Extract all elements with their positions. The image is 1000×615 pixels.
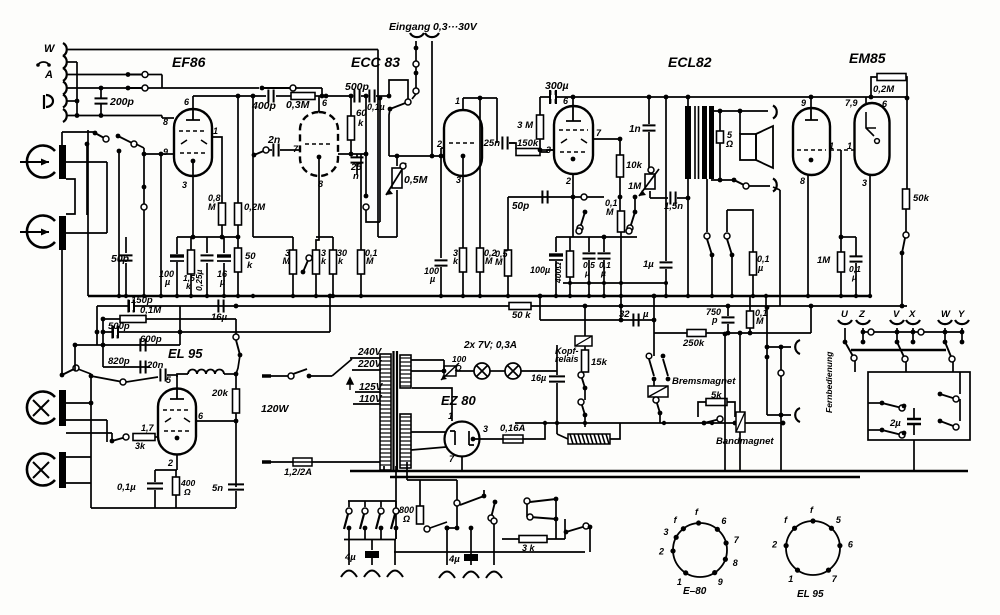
wire long line 1 <box>350 470 968 472</box>
wire <box>440 267 442 295</box>
wire <box>687 179 689 295</box>
wire <box>539 97 541 115</box>
svg-text:5k: 5k <box>711 390 722 401</box>
junction <box>191 235 196 240</box>
wire <box>360 154 362 250</box>
bus junction <box>359 294 363 298</box>
wire <box>547 538 565 540</box>
wire <box>555 237 557 252</box>
wire pin8 <box>807 175 809 296</box>
svg-text:50p: 50p <box>111 253 130 265</box>
wire <box>332 274 334 295</box>
wire <box>711 255 713 295</box>
wire <box>102 319 104 367</box>
svg-text:50 k: 50 k <box>512 310 531 321</box>
resistor 0,2M right <box>477 248 484 272</box>
wire <box>66 456 91 458</box>
wire anode stub <box>462 98 464 110</box>
wire grid9 <box>144 153 174 155</box>
wire <box>376 95 389 97</box>
bus junction <box>506 294 510 298</box>
wire <box>653 351 655 356</box>
switch <box>578 372 587 390</box>
bus junction <box>439 294 443 298</box>
svg-text:0,1µ: 0,1µ <box>367 102 385 112</box>
wire <box>711 179 733 181</box>
pinout diagram E-80 <box>673 523 727 577</box>
junction <box>568 281 572 285</box>
wire <box>176 375 178 389</box>
wire <box>862 328 864 342</box>
wire <box>493 524 495 565</box>
junction <box>85 142 90 147</box>
wire <box>604 236 637 238</box>
contact <box>424 526 430 532</box>
resistor 1M em85 <box>838 252 845 272</box>
wire <box>78 369 91 374</box>
wire <box>167 374 177 376</box>
wire <box>111 433 113 441</box>
wire <box>507 276 509 295</box>
wire <box>648 132 650 168</box>
wire <box>221 225 223 237</box>
resistor 5k <box>706 399 727 406</box>
junction <box>555 421 559 425</box>
svg-text:0,3M: 0,3M <box>286 99 310 111</box>
wire <box>569 237 571 251</box>
wire W row <box>67 49 378 51</box>
junction <box>142 152 147 157</box>
wire <box>154 490 156 508</box>
capacitor 1µ <box>660 262 673 267</box>
svg-text:µ: µ <box>642 309 649 320</box>
resistor 1,5k <box>188 250 195 274</box>
pin 1 <box>683 570 688 575</box>
wire 250k row <box>654 332 811 334</box>
svg-text:0,5M: 0,5M <box>404 174 428 186</box>
ground 5 <box>463 572 479 579</box>
svg-text:50p: 50p <box>512 201 529 212</box>
wire <box>350 140 352 154</box>
svg-text:200p: 200p <box>109 96 135 108</box>
wire <box>396 190 398 237</box>
wire <box>854 361 856 372</box>
switch <box>388 99 411 111</box>
wire <box>539 296 541 320</box>
wire head jog <box>66 179 75 214</box>
resistor 0,1M ecl <box>618 211 625 232</box>
wire <box>952 362 954 372</box>
wire <box>905 209 907 232</box>
wire <box>177 374 188 377</box>
power transformer secondary bottom <box>400 414 411 468</box>
bus junction <box>236 294 240 298</box>
contact bank1-1 <box>346 508 352 514</box>
switch arm <box>430 522 447 528</box>
junction <box>478 96 483 101</box>
head symbol 2 (circle with arrow) <box>20 216 55 248</box>
svg-text:W: W <box>44 43 56 55</box>
wire <box>752 214 754 252</box>
wire <box>706 179 708 232</box>
svg-text:Eingang: Eingang <box>389 21 431 33</box>
wire speaker drop <box>779 190 781 306</box>
svg-text:400Ω: 400Ω <box>553 262 563 284</box>
wire <box>752 275 754 295</box>
wire <box>235 319 237 334</box>
wire <box>731 255 733 295</box>
wire <box>280 149 300 151</box>
junction <box>349 152 354 157</box>
fuse 1,2/2A <box>293 458 312 466</box>
wire <box>321 88 323 96</box>
wire <box>589 527 591 552</box>
wire <box>483 490 485 496</box>
svg-text:2µ: 2µ <box>889 418 901 429</box>
junction <box>781 421 785 425</box>
jack remote 1 <box>795 340 800 354</box>
wire <box>620 232 622 295</box>
wire A row <box>67 74 128 76</box>
wire <box>739 333 741 412</box>
wire EZ80 plate <box>412 388 452 421</box>
junction <box>89 401 94 406</box>
capacitor 0,5µ <box>583 253 596 258</box>
svg-text:15k: 15k <box>591 357 608 368</box>
junction <box>664 281 668 285</box>
contact <box>491 518 497 524</box>
wire head2 top <box>66 232 107 234</box>
wire 600p row <box>75 344 180 346</box>
svg-text:EZ 80: EZ 80 <box>441 393 476 408</box>
tube EZ80 (circle) <box>445 422 480 457</box>
wire <box>440 148 442 156</box>
junction <box>809 95 814 100</box>
junction <box>324 94 329 99</box>
resistor 0,2M em85 <box>877 74 906 81</box>
junction <box>73 343 78 348</box>
junction <box>652 294 657 299</box>
head core bar 1 <box>59 145 66 179</box>
wire <box>780 376 782 471</box>
wire <box>496 98 498 143</box>
svg-text:250k: 250k <box>682 338 705 349</box>
wire pin6 <box>196 420 236 422</box>
capacitor 16µ <box>217 254 231 257</box>
ground 6 <box>486 572 502 579</box>
junction <box>445 526 450 531</box>
bus junction <box>602 294 606 298</box>
capacitor 2n <box>273 144 278 157</box>
switch <box>653 397 662 415</box>
head core bar 3 <box>59 390 66 426</box>
junction <box>869 95 874 100</box>
svg-text:7,9: 7,9 <box>845 98 858 108</box>
wire <box>431 41 433 156</box>
Bandmagnet box <box>736 412 745 432</box>
svg-text:A: A <box>44 69 53 81</box>
wire <box>118 151 120 295</box>
wire <box>269 149 272 151</box>
wire <box>572 174 574 197</box>
junction <box>538 148 543 153</box>
switch <box>727 239 734 257</box>
switch <box>578 399 587 417</box>
wire <box>315 274 317 295</box>
contact <box>288 373 294 379</box>
contact bank1-2 <box>362 508 368 514</box>
jack X <box>906 320 920 324</box>
junction <box>328 294 333 299</box>
switch <box>89 374 126 385</box>
mains lead top <box>262 374 271 378</box>
contact <box>400 163 406 169</box>
wire <box>412 94 416 99</box>
switch arm <box>93 131 109 142</box>
wire <box>440 156 442 258</box>
resistor 0,3M <box>291 93 315 100</box>
junction <box>652 318 657 323</box>
bus junction <box>664 294 668 298</box>
pin 1 <box>795 568 800 573</box>
wire <box>470 560 472 565</box>
wire <box>462 272 464 295</box>
ground 4 <box>439 572 455 579</box>
wire <box>773 187 780 190</box>
resistor 250k <box>687 330 706 337</box>
wire <box>610 423 620 439</box>
wire plate row <box>193 95 266 97</box>
svg-text:8: 8 <box>733 558 738 568</box>
wire <box>961 328 963 342</box>
contact bank1-3 <box>378 508 384 514</box>
wire <box>865 97 867 103</box>
wire <box>648 97 650 124</box>
switch mains arm <box>293 369 307 374</box>
capacitor 600p <box>140 339 145 352</box>
wire <box>395 466 397 539</box>
svg-text:10k: 10k <box>626 160 643 171</box>
wire <box>389 80 408 99</box>
relay Kopfrelais <box>575 336 592 346</box>
junction <box>101 317 106 322</box>
svg-text:240V: 240V <box>357 347 383 358</box>
svg-text:1: 1 <box>455 96 460 106</box>
tube ECC83 right half <box>444 110 482 176</box>
bus junction <box>124 294 128 298</box>
wire <box>959 372 961 394</box>
wire <box>653 379 655 386</box>
junction <box>902 404 907 409</box>
switch contact <box>260 85 296 91</box>
svg-text:µ: µ <box>164 277 170 287</box>
junction <box>895 330 900 335</box>
wire p row <box>67 100 77 102</box>
cathode dot <box>317 155 322 160</box>
svg-text:1,2/2A: 1,2/2A <box>284 467 312 478</box>
svg-text:20n: 20n <box>146 360 164 371</box>
junction <box>723 332 728 337</box>
switch arm <box>116 134 137 147</box>
wire <box>766 308 768 348</box>
wire <box>462 156 464 248</box>
wire <box>868 429 882 431</box>
head core bar 2 <box>59 216 66 250</box>
tube EF86 <box>174 109 212 176</box>
resistor 5Ω <box>717 131 724 143</box>
wire cathode <box>192 161 194 237</box>
junction <box>686 196 691 201</box>
junction <box>748 331 753 336</box>
wire plate7 <box>593 138 620 140</box>
junction <box>236 235 241 240</box>
junction <box>178 330 183 335</box>
wire <box>677 197 688 199</box>
resistor 3k bottom <box>519 536 547 543</box>
switch arm W <box>943 340 955 362</box>
switch box4 <box>938 419 959 430</box>
svg-text:µ: µ <box>584 268 590 278</box>
capacitor 0,1µ el95 <box>147 483 163 488</box>
wire <box>395 501 397 507</box>
svg-text:3: 3 <box>456 175 461 185</box>
wire <box>292 237 294 250</box>
wire <box>235 374 237 389</box>
wire <box>739 111 741 134</box>
jack speaker top <box>773 106 777 119</box>
capacitor 0,25µ <box>201 255 214 260</box>
wire <box>96 306 98 345</box>
junction <box>95 330 100 335</box>
svg-text:1: 1 <box>677 577 682 587</box>
wire <box>394 539 396 565</box>
capacitor 500p row <box>112 326 117 339</box>
svg-text:2: 2 <box>771 540 777 550</box>
mains lead bottom <box>262 460 271 464</box>
pin f <box>792 526 797 531</box>
wire <box>348 539 350 565</box>
svg-text:EL 95: EL 95 <box>797 589 824 600</box>
switch <box>627 210 637 231</box>
tube ECL82 <box>554 106 593 174</box>
junction <box>387 94 392 99</box>
jack W <box>938 320 952 324</box>
junction <box>619 304 624 309</box>
svg-text:µ: µ <box>429 274 435 284</box>
wire <box>190 274 192 295</box>
wire <box>555 261 557 295</box>
input jack 5 <box>63 95 67 108</box>
potentiometer 1M <box>639 169 659 196</box>
junction <box>686 95 691 100</box>
junction <box>414 46 419 51</box>
svg-text:400p: 400p <box>251 100 277 112</box>
wire <box>348 528 350 539</box>
wire <box>161 116 163 119</box>
wire left border <box>87 130 89 296</box>
switch <box>530 497 558 502</box>
bus junction <box>461 294 465 298</box>
capacitor 150p <box>128 300 133 313</box>
wire <box>584 423 586 427</box>
wire box drop <box>913 440 915 471</box>
wire <box>419 480 421 506</box>
wire head1 <box>66 161 107 163</box>
wire to speaker <box>713 110 768 112</box>
svg-text:V: V <box>893 309 900 320</box>
pilot lamp 2 <box>505 363 521 379</box>
wire <box>66 419 107 421</box>
wire <box>125 263 127 295</box>
svg-text:50k: 50k <box>913 193 930 204</box>
switch <box>60 365 79 377</box>
switch bank1-3 <box>376 514 380 529</box>
bus junction <box>331 294 335 298</box>
wire <box>66 402 91 404</box>
wire <box>479 98 481 248</box>
junction <box>781 421 786 426</box>
svg-text:2: 2 <box>565 176 571 186</box>
wire <box>126 377 158 382</box>
svg-text:U: U <box>841 309 849 320</box>
contact <box>527 514 533 520</box>
svg-text:1,5n: 1,5n <box>664 201 683 212</box>
junction <box>538 294 543 299</box>
svg-text:4µ: 4µ <box>344 552 356 563</box>
svg-text:2: 2 <box>167 458 173 468</box>
junction <box>718 178 723 183</box>
svg-text:600p: 600p <box>140 334 162 345</box>
wire <box>76 62 78 116</box>
input jack 1 <box>63 43 67 56</box>
erase head symbol 2 <box>27 454 55 486</box>
wire <box>356 154 358 157</box>
junction <box>543 421 547 425</box>
wire <box>521 370 557 372</box>
wire <box>766 347 768 415</box>
wire <box>749 296 751 311</box>
contact <box>454 500 460 506</box>
switch <box>110 434 129 443</box>
resistor 10k <box>617 155 624 177</box>
switch contact A <box>126 72 148 78</box>
wire <box>726 210 728 232</box>
wire <box>727 402 735 417</box>
wire <box>160 154 162 295</box>
jack U <box>838 320 852 324</box>
junction <box>75 99 80 104</box>
junction <box>101 343 106 348</box>
wire <box>557 434 568 439</box>
wire <box>868 402 882 404</box>
capacitor 400p <box>268 90 273 103</box>
svg-text:2x 7V; 0,3A: 2x 7V; 0,3A <box>463 340 517 351</box>
wire <box>143 210 145 295</box>
junction <box>602 235 607 240</box>
wire <box>223 237 225 253</box>
wire <box>473 438 503 440</box>
svg-text:1M: 1M <box>628 181 642 192</box>
wire <box>136 144 144 148</box>
junction <box>445 526 450 531</box>
junction <box>618 195 623 200</box>
svg-text:µ: µ <box>851 272 857 282</box>
bus junction <box>554 294 558 298</box>
wire <box>896 328 898 342</box>
wire <box>727 306 729 316</box>
svg-text:Fernbedienung: Fernbedienung <box>824 351 834 413</box>
junction <box>809 304 814 309</box>
